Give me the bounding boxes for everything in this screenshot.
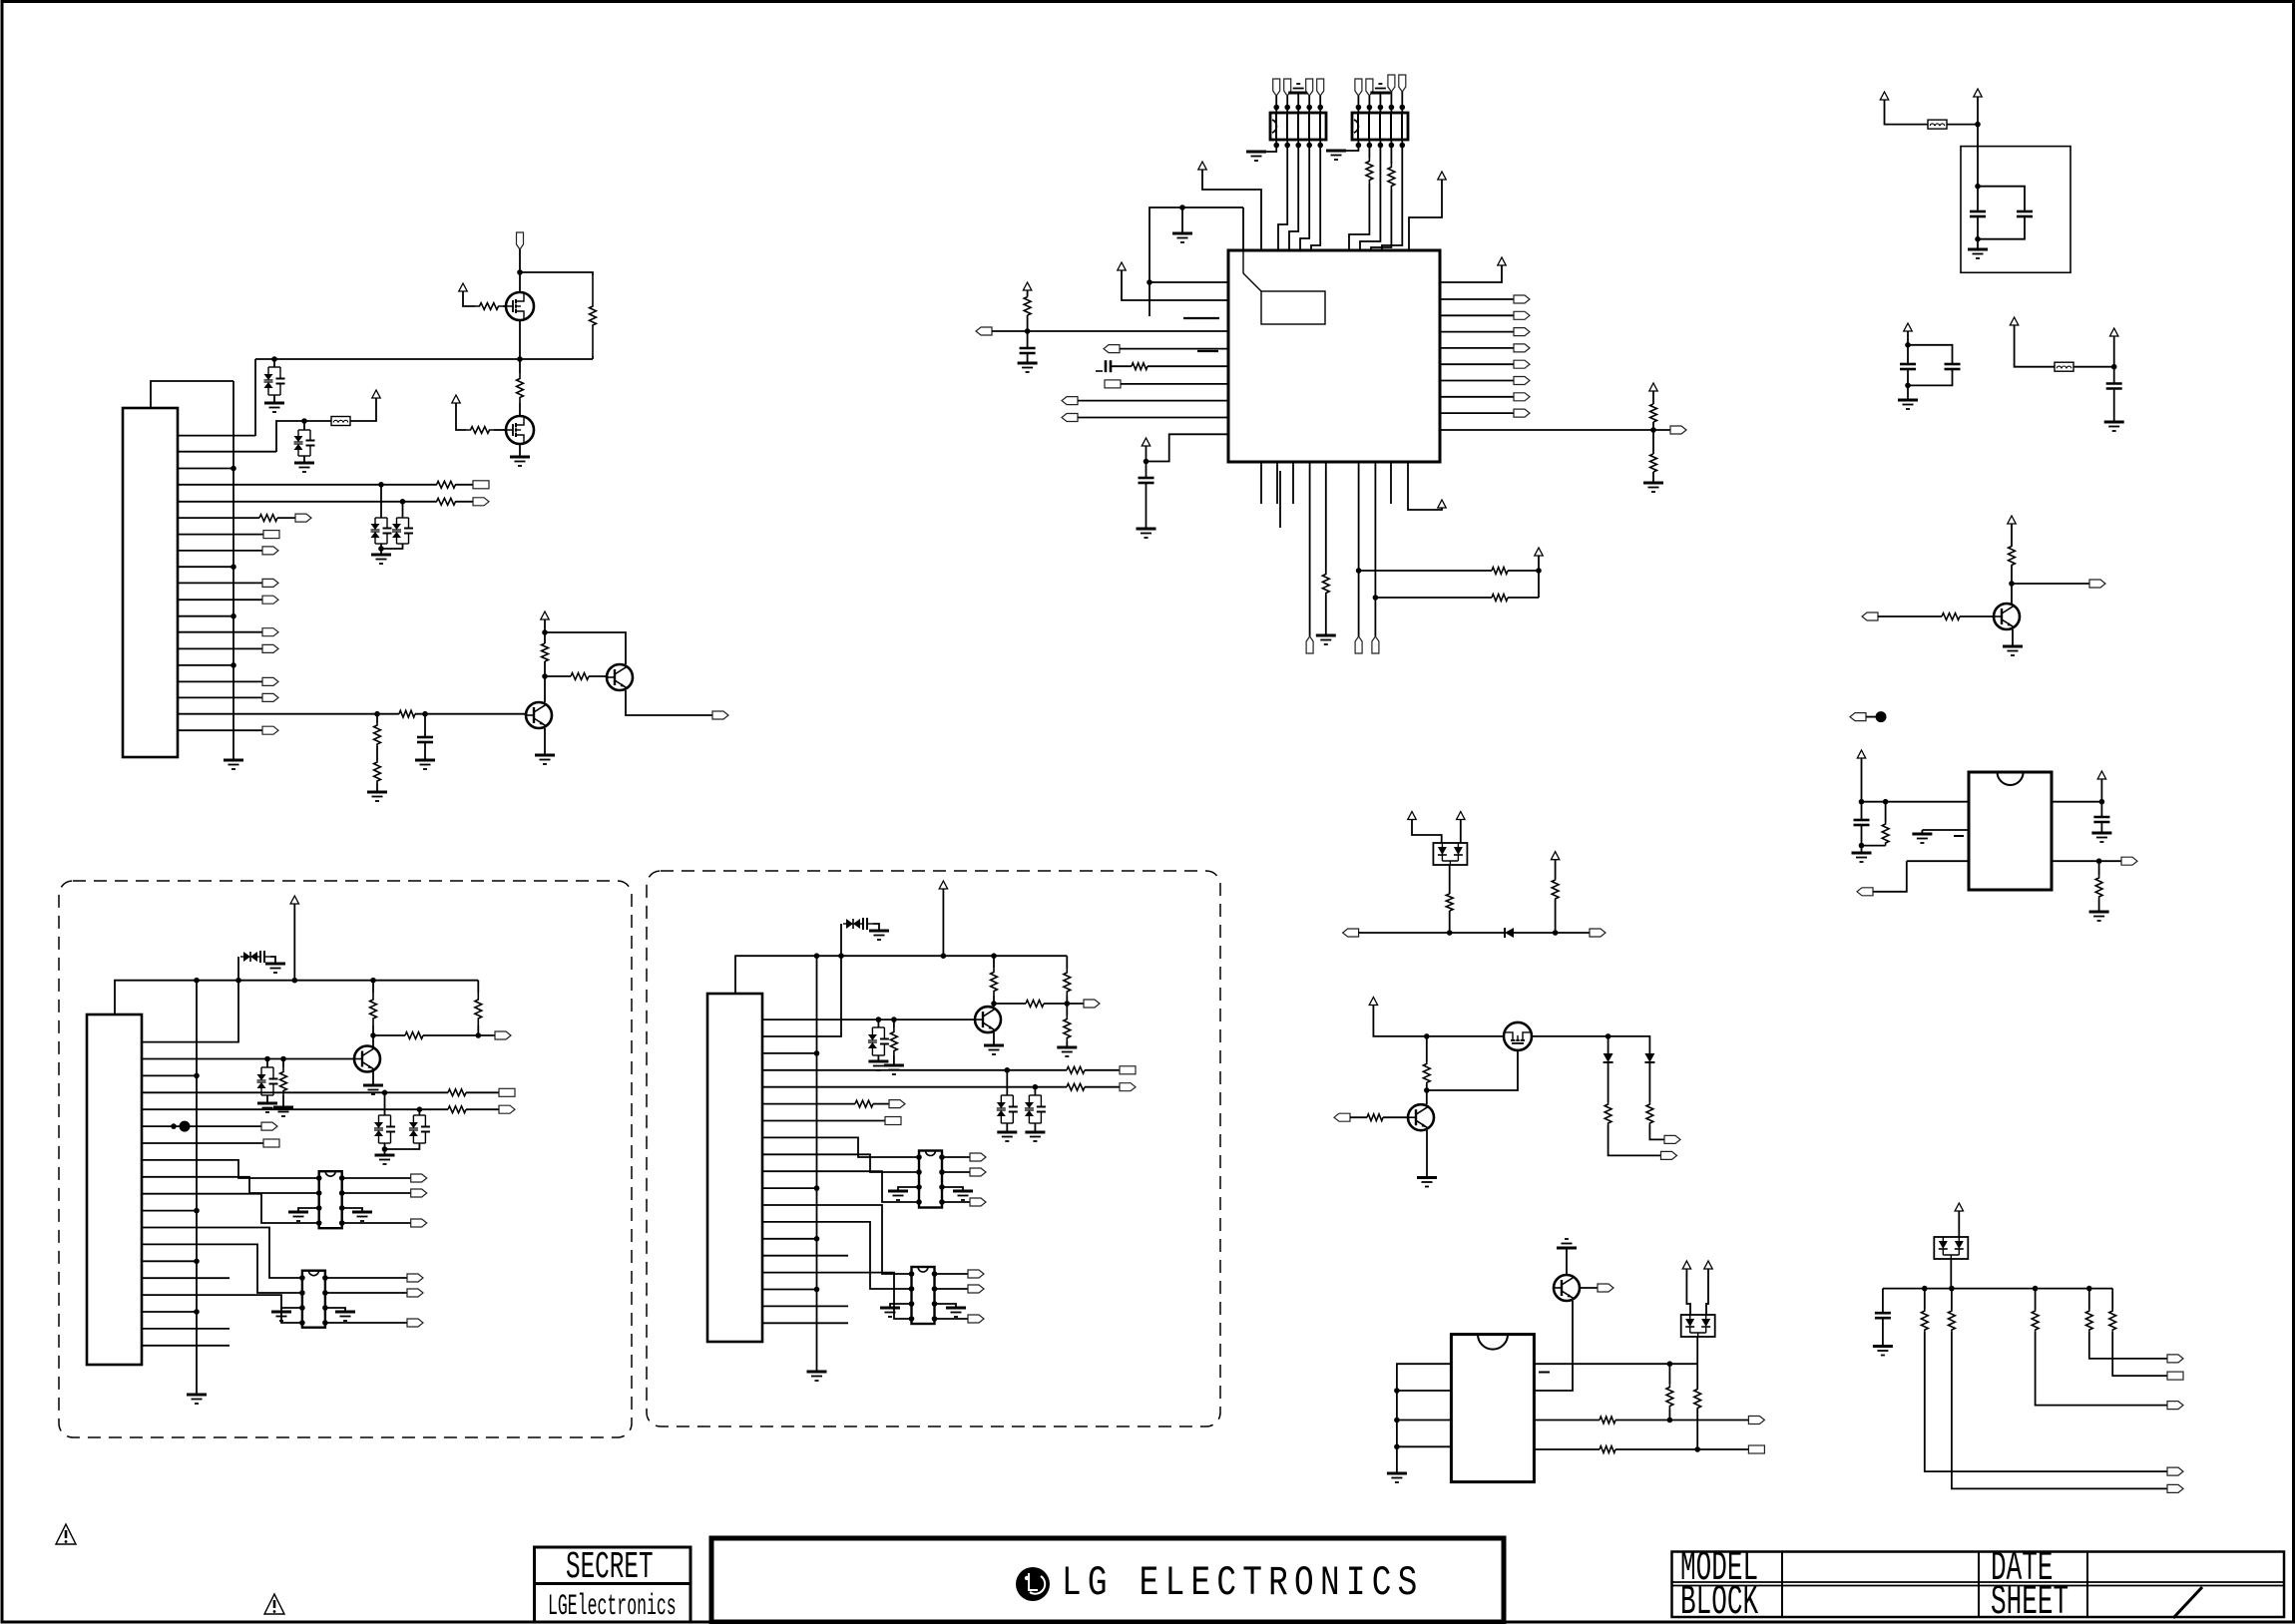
wire J2 pin6 (142, 1125, 261, 1127)
wire (456, 501, 473, 503)
wire (1308, 96, 1310, 108)
wire pin U7R3 (1535, 1420, 1601, 1421)
wire (424, 714, 426, 737)
wire (1147, 434, 1229, 461)
wire (942, 1201, 970, 1203)
tag (2167, 1355, 2183, 1363)
dual diode D18 (1934, 1237, 1968, 1259)
tag (970, 1168, 986, 1176)
wire (1297, 140, 1299, 146)
wire (415, 713, 526, 715)
node RN2 bot 3 (1378, 143, 1384, 149)
node (1859, 843, 1865, 849)
node (1553, 930, 1559, 936)
table col lines (1781, 1552, 1783, 1618)
node RN1 top 4 (1306, 105, 1312, 111)
wire (325, 1277, 407, 1279)
resistor RJ1955 (1949, 1310, 1956, 1332)
wire J3 pin18 (762, 1305, 848, 1307)
wire (1412, 820, 1442, 844)
power arrow (1974, 89, 1982, 97)
wire pin14 (178, 647, 262, 649)
node RN2 top 4 (1389, 105, 1395, 111)
node (932, 1316, 938, 1322)
wire J3 pin5 (762, 1086, 1067, 1088)
node (230, 613, 236, 619)
wire (380, 544, 382, 555)
resistor R8 (399, 710, 415, 717)
wire (935, 1273, 969, 1275)
wire pin4 (178, 484, 436, 486)
ground (510, 457, 530, 466)
node (1356, 568, 1362, 574)
node RN2 top 3 (1378, 105, 1384, 111)
resistor R20 (1492, 568, 1508, 575)
wire pin B5 (1325, 462, 1327, 573)
tag NETR8 (1514, 409, 1530, 417)
wire (1958, 1211, 1960, 1237)
wire J3 pin11 (762, 1187, 817, 1189)
ferrite bead FB3 (2055, 362, 2073, 371)
wire (1202, 170, 1261, 250)
wire (1555, 900, 1557, 933)
wire J3 pin8 (762, 1137, 919, 1157)
wire (380, 485, 382, 518)
terminal flag (1273, 79, 1280, 96)
tag NETL6 (1105, 380, 1121, 388)
wire (1907, 331, 1909, 364)
wire J2 pin10 (142, 1194, 319, 1223)
wire pin8 (178, 550, 262, 552)
SECRET box (535, 1547, 691, 1622)
capacitor C8 (1945, 364, 1961, 369)
wire pin3 (178, 468, 233, 470)
wire bus (196, 981, 198, 1395)
wire pin R0 (1440, 265, 1502, 282)
power arrow (452, 395, 460, 403)
wire (418, 1109, 420, 1115)
zener+cap D2 (294, 430, 315, 456)
wire (1649, 1125, 1664, 1139)
zener+cap D13 (843, 918, 873, 930)
wire (1319, 96, 1321, 108)
power arrow (1857, 750, 1865, 758)
wire pin R5 (1440, 363, 1514, 365)
wire (1921, 830, 1923, 834)
node big (1876, 711, 1887, 722)
node (876, 1016, 882, 1022)
wire (2012, 583, 2089, 585)
wire J2 pin18 (142, 1328, 230, 1330)
wire (1615, 1448, 1748, 1450)
wire (342, 1177, 411, 1179)
resistor RJ2093 (2085, 1310, 2092, 1332)
wire (376, 714, 378, 723)
tag (1748, 1417, 1764, 1424)
wire (1349, 184, 1369, 250)
node (2111, 364, 2117, 370)
wire J3 pin12 (762, 1205, 912, 1274)
wire (1882, 1289, 1884, 1314)
node (264, 1056, 270, 1062)
wire (1181, 207, 1183, 233)
wire (1866, 716, 1876, 718)
power arrow (372, 390, 380, 398)
pin dash (1539, 1372, 1550, 1374)
wire (1066, 1004, 1068, 1015)
tag NET10 (262, 579, 278, 587)
wire (276, 421, 331, 452)
wire (1397, 1420, 1452, 1421)
node (1949, 1286, 1955, 1292)
node big (180, 1121, 191, 1132)
wire pin B9 (1408, 462, 1442, 510)
resistor R36 (991, 968, 998, 996)
ground (2089, 912, 2109, 921)
node (1025, 328, 1031, 334)
wire (1978, 187, 2025, 211)
connector J2 (87, 1015, 142, 1365)
zener+cap D12 (409, 1115, 430, 1143)
node (814, 1050, 820, 1056)
wire (1085, 1086, 1120, 1088)
ground (264, 403, 284, 412)
wire pin B4 (1309, 462, 1311, 636)
ground (273, 1107, 293, 1116)
ground (888, 1191, 908, 1200)
resistor R24 (1882, 822, 1889, 846)
node (932, 1301, 938, 1307)
wire (935, 1288, 969, 1290)
wire (1390, 140, 1392, 146)
wire (376, 746, 378, 760)
wire J3 pin10 (762, 1171, 919, 1202)
wire (1977, 97, 1979, 187)
wire J2 pin14 (142, 1260, 197, 1262)
power arrow (541, 611, 549, 619)
zener+cap D1 (264, 367, 285, 395)
wire (519, 444, 521, 457)
ground (984, 1045, 1004, 1054)
wire (466, 1108, 499, 1110)
resistor R21 (1492, 595, 1508, 602)
ground (997, 1132, 1017, 1141)
terminal flag P1 (517, 232, 524, 249)
wire (2011, 566, 2013, 604)
wire (519, 359, 521, 373)
wire pin R9 (1440, 429, 1670, 431)
wire pin R7 (1440, 396, 1514, 398)
resistor network RN1 (1270, 113, 1326, 140)
resistor R16 (1132, 363, 1148, 370)
wire J2 pin15 (142, 1277, 230, 1279)
node RN1 bot 4 (1306, 143, 1312, 149)
wire (626, 690, 712, 715)
wire (1390, 108, 1392, 114)
wire pin R8 (1440, 412, 1514, 414)
wire pin13 (178, 631, 262, 633)
tag IN3 (1857, 888, 1873, 896)
wire (1319, 108, 1321, 114)
tag (1120, 1083, 1136, 1091)
ground (352, 1212, 372, 1221)
node (194, 1208, 200, 1214)
node (916, 1169, 922, 1175)
capacitor C11 (2093, 817, 2109, 822)
node RN1 top 3 (1295, 105, 1301, 111)
node (1667, 1418, 1673, 1423)
wire (273, 359, 275, 367)
wire (2015, 325, 2055, 367)
wire (1951, 1289, 1953, 1310)
wire J2 pin13 (142, 1244, 302, 1293)
IC U6 (912, 1267, 935, 1324)
tag NET4 (473, 481, 489, 489)
wire (935, 1318, 969, 1320)
tag NETR5 (1514, 360, 1530, 368)
wire (1066, 1041, 1068, 1047)
node (939, 1184, 945, 1190)
node (1975, 122, 1981, 128)
connector J1 (123, 408, 178, 757)
node (1447, 930, 1453, 936)
wire (2113, 389, 2115, 423)
ground (953, 1191, 973, 1200)
node (400, 499, 406, 505)
ground flag (1370, 84, 1390, 93)
tag NT1 (1850, 713, 1866, 721)
wire (385, 1143, 420, 1149)
capacitor C6 (2017, 211, 2033, 216)
power arrow (1535, 548, 1543, 556)
IC U1 (1228, 250, 1440, 462)
power arrow (1649, 383, 1657, 391)
wire (1286, 96, 1288, 108)
tag (2167, 1372, 2183, 1380)
wire J3 pin7 (762, 1120, 885, 1122)
resistor R27 (1552, 879, 1559, 900)
wire (1368, 108, 1370, 114)
node (1179, 204, 1185, 210)
resistor R11 (571, 673, 589, 680)
node RN1 top 1 (1273, 105, 1279, 111)
node (2099, 799, 2105, 805)
wire (2100, 822, 2102, 833)
tag NF2 (1590, 929, 1606, 937)
wire (1044, 1003, 1067, 1005)
power arrow (1408, 812, 1416, 820)
wire (381, 544, 403, 549)
resistor R2 gate (475, 303, 503, 310)
transistor Q7 (1408, 1104, 1434, 1130)
dashed module box 2 (647, 871, 1220, 1426)
zener+cap D15 (997, 1095, 1018, 1123)
wire (1379, 108, 1381, 114)
wire (1607, 1036, 1609, 1053)
tag (411, 1189, 427, 1197)
tag IN2 (1862, 612, 1878, 620)
power arrow (1704, 1261, 1712, 1269)
SECRET divider (535, 1582, 691, 1585)
wire (1696, 1337, 1698, 1389)
wire (1382, 146, 1402, 251)
wire (942, 889, 944, 956)
node (1650, 427, 1656, 433)
node (1147, 279, 1152, 285)
tag NETR9 (1670, 426, 1686, 434)
ferrite bead FB2 (1928, 120, 1947, 129)
resistor R7 (259, 515, 277, 522)
ground bus (224, 760, 243, 769)
node (378, 546, 384, 552)
wire (1952, 1332, 2167, 1489)
tag (2167, 1402, 2183, 1410)
wire gnd U4R (325, 1308, 345, 1312)
resistor R34 (475, 993, 482, 1025)
node (1033, 1084, 1039, 1090)
wire (1308, 140, 1310, 146)
IC U2 (1969, 772, 2052, 890)
tag NET17 (262, 693, 278, 701)
wire (1350, 1116, 1367, 1118)
node (991, 953, 997, 959)
node (1975, 236, 1981, 242)
wire (402, 502, 404, 518)
wire (1397, 1390, 1452, 1392)
node (941, 953, 947, 959)
node (1694, 1446, 1700, 1452)
wire (1555, 860, 1557, 879)
ground (367, 792, 387, 801)
wire (1357, 140, 1359, 146)
node (339, 1175, 345, 1181)
node (382, 1146, 388, 1152)
node (916, 1184, 922, 1190)
ground bus (807, 1372, 827, 1381)
node (316, 1220, 322, 1226)
node RN2 top 1 (1356, 105, 1362, 111)
node (292, 978, 298, 984)
node (939, 1199, 945, 1205)
tag (889, 1100, 905, 1108)
wire pin U2R1 (2052, 801, 2101, 803)
resistor R44 (1694, 1389, 1701, 1409)
tag (2167, 1484, 2183, 1492)
tag NETR4 (1514, 344, 1530, 352)
wire (1319, 140, 1321, 146)
wire (1300, 146, 1309, 251)
tag (968, 1285, 984, 1293)
wire (520, 272, 593, 275)
wire (466, 1091, 499, 1093)
wire left rail (1149, 207, 1243, 316)
node (1859, 799, 1865, 805)
node (932, 1286, 938, 1292)
resistor R35 (280, 1067, 287, 1095)
wire pin L9 (1146, 446, 1148, 473)
node (1005, 1067, 1011, 1073)
resistor R15 (1024, 297, 1031, 315)
tag NETR3 (1514, 328, 1530, 336)
wire (1275, 96, 1277, 108)
wire (423, 1034, 478, 1036)
ground (535, 755, 555, 764)
node (1922, 1286, 1928, 1292)
caution triangle 2 (264, 1594, 284, 1614)
wire (1311, 146, 1320, 251)
ground (1018, 363, 1038, 372)
wire J2 pin11 (142, 1210, 197, 1212)
capacitor C12 (1875, 1313, 1891, 1318)
tag NETR1 (1514, 295, 1530, 303)
wire (277, 517, 295, 519)
wire (1908, 345, 1953, 364)
title table (1672, 1552, 2285, 1618)
wire (1947, 124, 1978, 126)
node (1065, 1001, 1071, 1007)
tag IN4 (1334, 1113, 1350, 1121)
wire (1652, 422, 1654, 430)
ground (375, 1155, 395, 1164)
wire J3 pin3 (762, 1052, 817, 1054)
transistor Q9 (975, 1007, 1001, 1032)
wire (1146, 473, 1148, 478)
power arrow (1498, 257, 1506, 265)
wire (544, 728, 546, 755)
tag NET19 (262, 726, 278, 734)
node (339, 1190, 345, 1196)
tag NH1 (1084, 1000, 1100, 1008)
wire (1652, 430, 1654, 454)
node (1536, 568, 1542, 574)
wire pin L5 (1111, 365, 1132, 367)
wire net A (255, 358, 593, 360)
wire top (151, 381, 233, 408)
wire R net1 (1359, 570, 1492, 572)
ground (288, 1212, 308, 1221)
wire (1034, 1123, 1036, 1132)
wire gnd U6L (890, 1304, 912, 1308)
resistor R43 (1666, 1384, 1673, 1410)
wire (273, 395, 275, 403)
wire bus J (1883, 1288, 2112, 1290)
wire (877, 1019, 879, 1027)
node (814, 1287, 820, 1293)
diode D6 (1505, 928, 1514, 938)
ground (868, 1061, 888, 1070)
wire pin L1 (1149, 281, 1228, 283)
node (1394, 1418, 1400, 1423)
resistor RB (448, 1106, 466, 1113)
svg-text:LGElectronics: LGElectronics (548, 1590, 677, 1623)
ground (335, 1312, 355, 1321)
wire (893, 1019, 895, 1027)
resistor R9 (374, 723, 381, 746)
node (316, 1205, 322, 1211)
wire (1297, 108, 1299, 114)
wire RN1.1-gnd (1256, 146, 1276, 153)
pin-1 marker (1243, 250, 1261, 291)
node (370, 1032, 376, 1038)
wire (1368, 96, 1370, 108)
wire (1401, 92, 1403, 108)
node (194, 1259, 200, 1265)
tag OUT1 (712, 711, 728, 719)
wire pin2 (178, 451, 276, 453)
wire (519, 320, 521, 359)
ground (294, 463, 314, 472)
transistor Q8 (354, 1046, 380, 1072)
